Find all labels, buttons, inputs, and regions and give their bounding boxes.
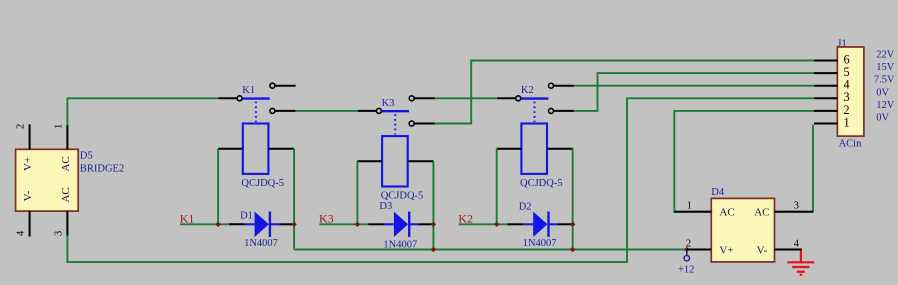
wire coil left to diode row (K3) — [356, 161, 358, 224]
relay K2 coil pin right — [547, 148, 573, 150]
svg-text:0V: 0V — [876, 113, 889, 124]
D5 pin 1 — [66, 124, 68, 149]
relay K3 actuator dotted link — [394, 114, 396, 134]
J1 pin 2 — [814, 110, 837, 112]
bridge rectifier D4 body — [711, 198, 774, 262]
relay K2 coil — [521, 124, 547, 174]
diode D1 anode pin — [229, 223, 245, 225]
svg-text:12V: 12V — [876, 100, 895, 111]
junction diode anode (K3) — [355, 222, 360, 227]
switch K1 NO terminal — [270, 83, 275, 88]
switch K2 NO terminal — [549, 83, 554, 88]
svg-text:4: 4 — [794, 238, 800, 249]
ground symbol — [787, 250, 814, 274]
switch K2 common pin — [497, 97, 516, 99]
svg-text:D1: D1 — [240, 210, 253, 221]
svg-text:D3: D3 — [379, 201, 392, 212]
wire coil left to diode row (K2) — [496, 149, 498, 225]
relay K3 coil pin left — [357, 160, 382, 162]
switch K1 NC terminal — [270, 108, 275, 113]
svg-text:0V: 0V — [876, 87, 889, 98]
relay K1 actuator dotted link — [255, 102, 257, 122]
D4 pin 3 — [775, 211, 814, 213]
D4 pin 1 — [674, 211, 711, 213]
junction diode cathode (K1) — [291, 222, 296, 227]
diode D1 cathode pin — [279, 223, 294, 225]
connector J1 body — [837, 47, 864, 136]
svg-text:15V: 15V — [876, 62, 895, 73]
svg-text:1N4007: 1N4007 — [523, 238, 557, 249]
svg-text:1: 1 — [687, 201, 692, 212]
relay K1 coil pin left — [218, 148, 243, 150]
junction rail D2 — [570, 247, 575, 252]
svg-text:2: 2 — [686, 238, 691, 249]
svg-text:AC: AC — [754, 207, 769, 219]
switch K3 common pin — [358, 110, 377, 112]
wire D5 pin1 to K1 common — [67, 98, 219, 125]
svg-text:AC: AC — [60, 187, 72, 202]
wire coil left to diode row (K1) — [217, 149, 219, 225]
svg-text:K3: K3 — [382, 98, 395, 109]
wire net label to diode anode (K2) — [459, 223, 508, 225]
junction diode anode (K1) — [215, 222, 220, 227]
wire net label to diode anode (K3) — [319, 223, 368, 225]
svg-text:V-: V- — [22, 190, 34, 201]
switch K1 NC pin — [275, 110, 296, 112]
wire coil right down to +12 rail (K2) — [572, 149, 574, 250]
svg-text:AC: AC — [719, 207, 734, 219]
svg-text:V+: V+ — [22, 157, 34, 171]
wire K3 NC to J1 pin6 (22V) — [435, 61, 814, 124]
switch K3 common terminal — [376, 108, 381, 113]
svg-text:22V: 22V — [876, 50, 895, 61]
switch K2 NO pin — [554, 85, 575, 87]
junction diode anode (K2) — [494, 222, 499, 227]
switch K1 common terminal — [237, 96, 242, 101]
svg-text:D2: D2 — [519, 202, 532, 213]
wire coil right down to +12 rail (K3) — [432, 161, 434, 249]
J1 pin 1 — [814, 123, 837, 125]
switch K3 NO terminal — [409, 96, 414, 101]
wire net label to diode anode (K1) — [180, 223, 229, 225]
svg-text:QCJDQ-5: QCJDQ-5 — [520, 178, 563, 189]
switch K3 NC terminal — [409, 121, 414, 126]
switch K3 NO pin — [414, 97, 435, 99]
junction diode cathode (K3) — [431, 222, 436, 227]
diode D1 body — [245, 212, 280, 237]
switch K2 NC pin — [554, 110, 575, 112]
wire J1 pin1 to D4 pin3 — [775, 125, 814, 212]
switch K3 NC pin — [414, 123, 435, 125]
J1 pin 6 — [814, 60, 837, 62]
svg-text:3: 3 — [794, 201, 799, 212]
svg-text:3: 3 — [53, 231, 64, 236]
relay K3 coil pin right — [408, 160, 434, 162]
svg-text:V-: V- — [757, 244, 768, 256]
wire K3 NO to K2 common — [435, 97, 497, 99]
svg-text:K2: K2 — [521, 85, 534, 96]
D5 pin 3 — [66, 211, 68, 236]
switch K1 common pin — [219, 97, 238, 99]
wire D5 pin3 along bottom up to J1 pin 3 — [67, 98, 814, 262]
switch K1 blade — [242, 97, 269, 99]
diode D3 cathode pin — [418, 223, 433, 225]
svg-text:1N4007: 1N4007 — [244, 238, 278, 249]
svg-text:D4: D4 — [711, 187, 725, 198]
svg-text:ACin: ACin — [839, 139, 863, 150]
diode D2 body — [523, 212, 558, 237]
svg-text:7.5V: 7.5V — [874, 75, 895, 86]
J1 pin 5 — [814, 72, 837, 74]
svg-text:4: 4 — [15, 230, 26, 236]
wire K2 NC to J1 pin5 (15V) — [574, 73, 814, 111]
relay K1 coil — [243, 124, 269, 174]
bridge rectifier D5 body — [16, 149, 79, 211]
power port +12 stem — [686, 251, 688, 255]
junction rail +12 tap — [684, 247, 689, 252]
switch K2 blade — [521, 97, 548, 99]
relay K2 actuator dotted link — [534, 102, 536, 122]
J1 pin 3 — [814, 97, 837, 99]
D5 pin 2 — [29, 124, 31, 149]
switch K2 NC terminal — [549, 108, 554, 113]
relay K3 coil — [382, 136, 408, 186]
power port +12 circle — [684, 256, 689, 261]
D4 pin 4 — [775, 249, 802, 251]
switch K3 blade — [382, 110, 409, 112]
svg-text:D5: D5 — [80, 150, 93, 161]
junction rail D3 — [431, 247, 436, 252]
diode D2 cathode pin — [558, 223, 573, 225]
J1 pin 4 — [814, 85, 837, 87]
svg-text:+12: +12 — [678, 264, 694, 275]
diode D3 anode pin — [368, 223, 384, 225]
svg-text:2: 2 — [15, 124, 26, 129]
diode D2 anode pin — [508, 223, 524, 225]
svg-text:K1: K1 — [242, 85, 255, 96]
switch K2 common terminal — [516, 96, 521, 101]
svg-text:AC: AC — [60, 156, 72, 171]
svg-text:1: 1 — [843, 115, 849, 129]
wire K2 NO to J1 pin4 (0V) — [574, 85, 814, 87]
diode D3 body — [384, 212, 419, 237]
wire coil right down to +12 rail (K1) — [293, 149, 295, 250]
svg-text:V+: V+ — [719, 244, 733, 256]
wire +12 rail (diode cathodes to D4 V+) — [294, 249, 687, 251]
svg-text:1: 1 — [53, 124, 64, 129]
svg-text:BRIDGE2: BRIDGE2 — [80, 164, 124, 175]
relay K2 coil pin left — [497, 148, 522, 150]
D5 pin 4 — [29, 211, 31, 236]
wire J1 pin2 to D4 pin1 (12V) — [674, 111, 814, 212]
wire K1 NC to K3 common — [296, 110, 358, 112]
D4 pin 2 — [687, 249, 712, 251]
switch K1 NO pin — [275, 85, 296, 87]
svg-text:QCJDQ-5: QCJDQ-5 — [241, 178, 284, 189]
relay K1 coil pin right — [268, 148, 294, 150]
junction diode cathode (K2) — [570, 222, 575, 227]
svg-text:J1: J1 — [837, 38, 846, 49]
